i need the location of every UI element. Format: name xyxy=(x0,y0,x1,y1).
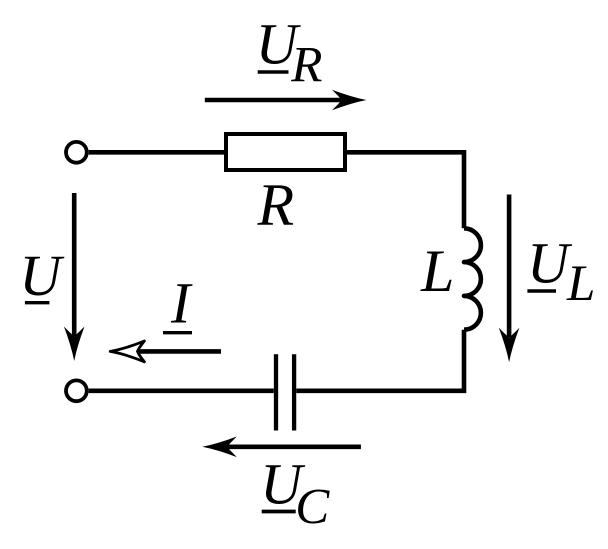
resistor R xyxy=(226,134,345,170)
arrow U (source voltage, pointing down) xyxy=(64,193,85,361)
label I xyxy=(163,271,193,336)
terminal bottom-left xyxy=(66,380,87,401)
svg-text:U: U xyxy=(19,243,65,308)
arrow U_C (voltage across C, pointing left) xyxy=(202,437,361,458)
wire right: inductor to bottom corner xyxy=(296,330,464,391)
wire top: terminal to resistor xyxy=(89,150,226,155)
svg-text:C: C xyxy=(295,480,330,536)
wire top-right: resistor to corner and down xyxy=(345,152,464,228)
capacitor C xyxy=(276,354,294,430)
label L xyxy=(420,238,454,304)
label R xyxy=(257,172,295,238)
wire bottom: capacitor to terminal xyxy=(89,388,274,393)
label U xyxy=(19,243,65,308)
arrow I (current, open head, pointing left) xyxy=(110,341,221,362)
arrow U_L (voltage across L, pointing down) xyxy=(499,195,520,363)
arrow U_R (voltage across R, pointing right) xyxy=(205,90,367,111)
label U_L xyxy=(527,231,595,313)
terminal top-left xyxy=(66,142,87,163)
inductor L xyxy=(464,228,481,329)
svg-text:L: L xyxy=(566,256,595,312)
svg-text:I: I xyxy=(170,271,193,336)
svg-text:R: R xyxy=(290,38,322,94)
svg-text:L: L xyxy=(420,238,454,304)
label U_C xyxy=(260,451,330,535)
label U_R xyxy=(256,11,323,93)
svg-text:R: R xyxy=(257,172,295,238)
